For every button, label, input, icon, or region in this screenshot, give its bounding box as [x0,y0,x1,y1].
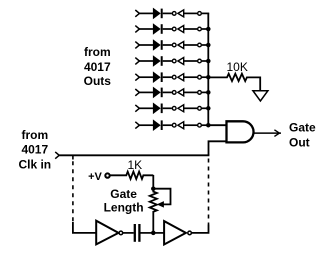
svg-text:Clk in: Clk in [18,158,51,172]
svg-text:from: from [84,45,111,59]
svg-text:Gate: Gate [110,187,137,201]
svg-text:4017: 4017 [21,143,48,157]
svg-text:+V: +V [88,171,102,183]
svg-text:from: from [21,128,48,142]
svg-text:4017: 4017 [84,60,111,74]
svg-text:1K: 1K [128,158,143,172]
svg-text:Outs: Outs [84,74,112,88]
svg-text:Out: Out [289,136,310,150]
svg-text:Length: Length [104,201,144,215]
svg-text:Gate: Gate [289,120,316,134]
svg-text:10K: 10K [227,60,248,74]
